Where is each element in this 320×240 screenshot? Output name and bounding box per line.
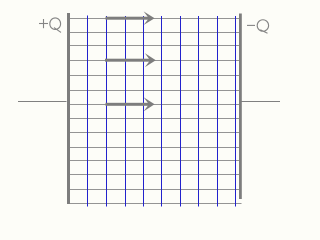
field line 8: [70, 118, 239, 120]
blue grid vertical line 7: [198, 16, 200, 207]
field line 9: [70, 132, 239, 134]
label +Q: [39, 18, 61, 33]
field line 7: [70, 104, 239, 106]
field line 5: [70, 75, 239, 77]
field line 12: [70, 174, 239, 176]
right axis line: [242, 101, 281, 103]
blue grid vertical line 1: [87, 16, 89, 207]
blue grid vertical line 2: [106, 16, 108, 207]
field line 14: [70, 203, 242, 205]
blue grid vertical line 6: [180, 16, 182, 207]
left axis line: [18, 101, 67, 103]
field line 6: [70, 90, 239, 92]
field arrow E2: [105, 53, 156, 67]
right capacitor plate (-): [239, 14, 242, 200]
blue grid vertical line 9: [235, 16, 237, 207]
field line 3: [70, 45, 239, 47]
field arrow E1: [106, 11, 155, 25]
field line 4: [70, 60, 239, 62]
left capacitor plate (+): [67, 13, 70, 204]
blue grid vertical line 3: [125, 16, 127, 207]
field line 2: [70, 32, 239, 34]
field line 10: [70, 147, 239, 149]
label -Q: [247, 20, 269, 33]
field line 11: [70, 160, 239, 162]
blue grid vertical line 4: [143, 16, 145, 207]
blue grid vertical line 8: [217, 16, 219, 207]
blue grid vertical line 5: [161, 16, 163, 207]
field arrow E3: [106, 97, 155, 111]
field line 1: [70, 18, 239, 20]
field line 13: [70, 189, 239, 191]
